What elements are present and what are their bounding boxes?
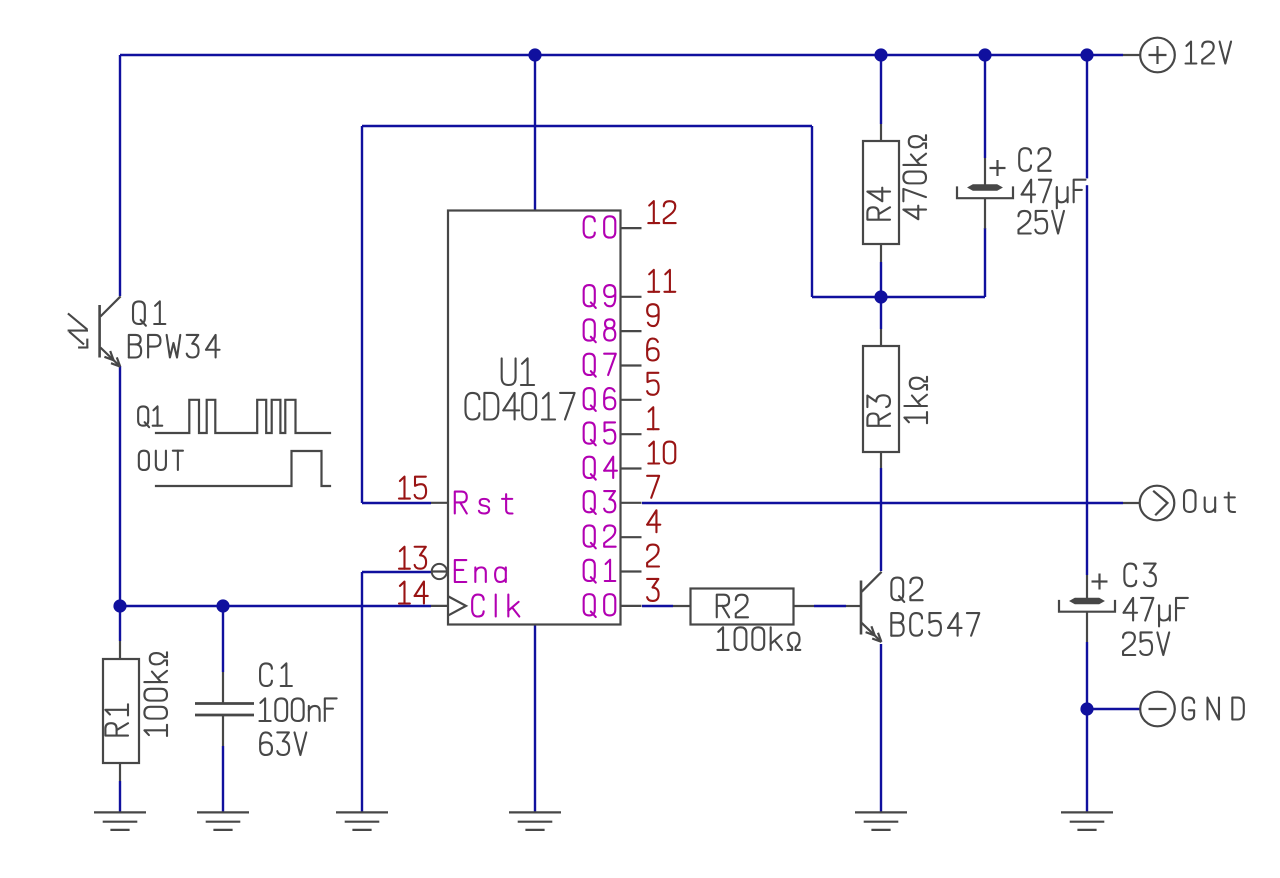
ground under C3 [1061,812,1113,830]
connector Out stub [1123,502,1140,504]
wire R4 to node [880,262,882,297]
supply +12V stub [1123,54,1141,56]
capacitor C2 body [957,158,1013,229]
wire Ena pin horizontal [362,571,431,573]
wire Q1 collector drop [119,55,121,296]
junction GND node [1080,702,1093,715]
junction Clk net at R1 [113,599,126,612]
resistor R1 body [103,659,139,763]
wire Rst net vertical [361,126,363,503]
wire U1 VSS [534,625,536,812]
U1 pin Q7 (pin 6) [584,339,659,377]
label C2 [1019,148,1050,171]
junction on 12V rail at C3 [1080,48,1093,61]
label R1 [105,704,128,735]
wire R3 to Q2 collector [880,468,882,571]
transistor Q2 (BC547) [846,572,882,642]
resistor R2 body [673,589,814,625]
label R3 [867,395,890,426]
capacitor C3 body [1059,574,1115,643]
label Q2 [891,578,922,602]
U1 pin Q8 (pin 9) [584,304,659,342]
supply +12V symbol [1140,38,1175,73]
junction on 12V rail at U1 VDD [528,48,541,61]
junction Clk net at C1 [216,599,229,612]
waveform OUT trace [156,451,330,486]
label 1kΩ [904,377,927,423]
label C1 [260,663,292,686]
wire C1 to ground [222,746,224,812]
wire 12V rail [120,54,1123,56]
U1 pin Q6 (pin 5) [584,373,659,411]
U1 pin Q4 (pin 10) [584,442,676,480]
label 25V (C3) [1123,632,1169,655]
label 47µF (C2) [1022,178,1092,208]
junction on 12V rail at R4 [874,48,887,61]
wire Rst net right vertical [811,126,813,297]
label GND [1183,698,1244,720]
connector Out symbol [1140,486,1175,521]
ground under Q2 [855,812,907,830]
label 12V [1186,42,1232,64]
capacitor C1 body [195,672,254,746]
label U1 [502,358,534,385]
label CD4017 [465,393,574,420]
label 100kΩ (R1) [144,652,167,736]
U1 pin Q1 (pin 2) [584,545,659,583]
wire GND node to GND symbol [1087,708,1141,710]
label 100nF [259,698,336,721]
wire Clk net to R1 [119,606,121,659]
wire 12V rail to R4 [880,55,882,124]
waveform Q1 trace [156,400,330,433]
wire Q3 to Out [642,502,1123,504]
ground for Ena net [336,812,388,830]
wire R4/R3 node horizontal [812,296,985,298]
ground under R1 [94,812,146,830]
wire C3 to GND node [1086,642,1088,812]
label waveform Q1 [138,406,162,427]
wire 12V rail to C2 [984,55,986,158]
wire Ena pin to ground vertical [361,572,363,812]
wire Q2 emitter to ground [880,644,882,812]
wire Rst net to Rst pin [362,502,431,504]
transistor Q1 (BPW34 photo) [68,296,121,366]
ground under C1 [197,812,249,830]
wire Q1 emitter to Clk net [119,366,121,606]
label 63V [260,732,306,755]
label Out [1184,490,1235,512]
label 470kΩ [903,135,926,219]
junction on 12V rail at C2 [978,48,991,61]
label Q1 [133,301,165,325]
label R2 [717,595,748,618]
wire U1 VDD [534,55,536,211]
wire R1 to ground [119,763,121,812]
wire 12V rail to C3 [1086,55,1088,575]
label 100kΩ (R2) [717,627,800,650]
U1 pin Ena (pin 13) with bubble [399,547,506,582]
wire Rst net top horizontal [362,125,812,127]
label C3 [1124,564,1156,587]
wire R2 to Q2 base [814,605,846,607]
label 25V (C2) [1018,211,1063,234]
wire Q0 to R2 [642,605,673,607]
wire node to R3 [880,297,882,329]
supply GND stub [1140,708,1142,710]
label R4 [867,188,890,220]
resistor R4 body [863,124,899,262]
op IC U1 body [448,211,621,625]
U1 pin Rst (pin 15) [399,477,512,514]
junction R4/R3 node [874,290,887,303]
wire Clk net to C1 [222,606,224,672]
ground under U1 VSS [509,812,561,830]
U1 pin Q3 (pin 7) [584,476,659,514]
U1 pin Q0 (pin 3) [584,579,659,617]
wire Clk net horizontal [120,605,431,607]
U1 pin Q9 (pin 11) [584,270,676,308]
resistor R3 body [863,329,899,468]
supply GND symbol [1140,692,1175,727]
label BC547 [891,613,979,636]
U1 pin Q2 (pin 4) [584,510,661,548]
label 47µF (C3) [1124,598,1188,627]
U1 pin Q5 (pin 1) [584,407,659,445]
U1 pin Clk (pin 14) with clock symbol [399,582,519,617]
label BPW34 [129,335,220,358]
wire C2 to node [984,228,986,297]
U1 pin CO (pin 12) [584,201,676,237]
label waveform OUT [139,451,183,470]
